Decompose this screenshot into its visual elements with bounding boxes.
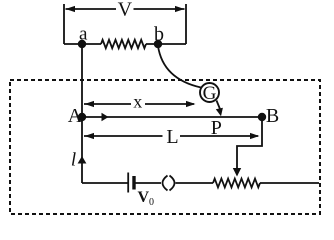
svg-text:B: B	[266, 105, 279, 127]
svg-text:L: L	[166, 126, 178, 148]
svg-text:l: l	[71, 150, 76, 171]
svg-text:b: b	[154, 24, 164, 46]
svg-text:V: V	[118, 0, 133, 21]
svg-text:G: G	[203, 83, 217, 104]
svg-text:x: x	[133, 92, 142, 112]
svg-text:V: V	[138, 189, 150, 206]
svg-text:A: A	[68, 105, 83, 127]
svg-text:0: 0	[149, 197, 154, 208]
svg-text:a: a	[79, 24, 88, 45]
